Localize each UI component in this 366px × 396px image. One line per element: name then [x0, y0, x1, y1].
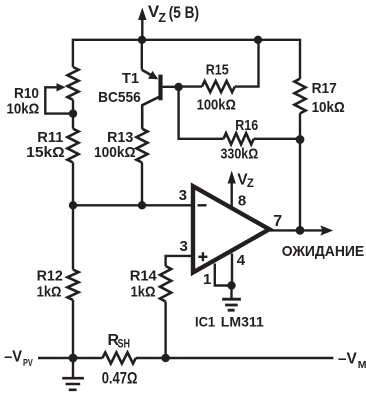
- svg-text:1kΩ: 1kΩ: [131, 284, 156, 301]
- svg-text:(5 В): (5 В): [169, 3, 199, 22]
- svg-text:M: M: [358, 359, 366, 371]
- svg-text:R10: R10: [14, 85, 39, 102]
- svg-text:7: 7: [273, 213, 282, 230]
- svg-text:R14: R14: [130, 268, 158, 285]
- svg-text:0.47Ω: 0.47Ω: [102, 368, 138, 387]
- svg-text:LM311: LM311: [221, 314, 264, 330]
- svg-text:15kΩ: 15kΩ: [26, 144, 64, 161]
- svg-text:T1: T1: [122, 70, 139, 87]
- svg-text:3: 3: [180, 238, 188, 255]
- svg-text:–V: –V: [338, 350, 358, 367]
- svg-text:R15: R15: [206, 62, 229, 79]
- svg-text:Z: Z: [158, 11, 166, 25]
- svg-text:SH: SH: [118, 339, 131, 351]
- svg-text:3: 3: [179, 187, 187, 204]
- svg-text:4: 4: [237, 252, 246, 269]
- svg-text:IC1: IC1: [195, 314, 215, 330]
- svg-text:10kΩ: 10kΩ: [7, 101, 40, 118]
- svg-text:BC556: BC556: [98, 89, 141, 106]
- svg-text:100kΩ: 100kΩ: [94, 144, 136, 161]
- svg-text:1: 1: [203, 271, 211, 288]
- svg-text:PV: PV: [23, 357, 33, 369]
- svg-text:330kΩ: 330kΩ: [221, 145, 259, 162]
- svg-text:ОЖИДАНИЕ: ОЖИДАНИЕ: [282, 243, 365, 260]
- svg-text:–V: –V: [4, 348, 23, 365]
- svg-text:Z: Z: [247, 178, 254, 190]
- svg-text:R17: R17: [312, 80, 337, 97]
- svg-text:R12: R12: [37, 268, 63, 285]
- svg-text:R16: R16: [235, 117, 258, 134]
- svg-text:1kΩ: 1kΩ: [37, 284, 62, 301]
- svg-text:8: 8: [238, 192, 246, 209]
- svg-text:10kΩ: 10kΩ: [312, 99, 345, 116]
- svg-text:100kΩ: 100kΩ: [197, 97, 236, 114]
